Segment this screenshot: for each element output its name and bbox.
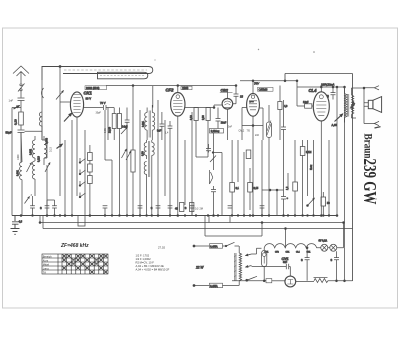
bus wire	[191, 112, 193, 216]
wire	[213, 133, 215, 170]
switch contacts	[80, 159, 86, 198]
svg-text:Bereich: Bereich	[43, 254, 52, 258]
IF T2 coil b	[144, 162, 146, 216]
resistor 1 ohm	[246, 150, 251, 159]
dial cord mark	[57, 144, 63, 149]
IF transformer T1 core	[149, 111, 150, 138]
svg-text:10nF: 10nF	[221, 122, 227, 125]
ground bus	[12, 215, 337, 217]
capacitor 5nF	[211, 186, 216, 216]
wire links	[262, 189, 284, 191]
capacitor C1 1nF	[18, 98, 25, 112]
bus wire	[157, 100, 159, 216]
speck	[258, 49, 259, 50]
svg-text:Braun: Braun	[361, 134, 373, 159]
rectifier CV1	[285, 276, 296, 287]
speaker terminal bottom	[374, 121, 379, 125]
svg-text:0,110: 0,110	[38, 156, 41, 162]
svg-text:2,00: 2,00	[202, 115, 205, 120]
svg-text:ZF=468 kHz: ZF=468 kHz	[60, 243, 89, 249]
svg-text:22 W: 22 W	[195, 266, 204, 270]
wire	[221, 153, 223, 216]
IF T2 coil a	[144, 140, 146, 159]
bus dots	[32, 215, 34, 217]
power transformer winding	[239, 246, 241, 286]
coil L4 0,001	[20, 133, 22, 216]
svg-text:Kurz: Kurz	[43, 258, 49, 262]
trimmer arrow	[25, 197, 30, 204]
wire	[296, 81, 298, 106]
trimmer arrow	[122, 149, 127, 158]
svg-text:4,5: 4,5	[19, 220, 23, 224]
coil arc	[42, 88, 44, 98]
wire	[41, 80, 43, 140]
feedback arrow	[335, 114, 343, 122]
tuning arrow CK1	[64, 113, 72, 122]
fuse F2 0,465A	[210, 283, 223, 288]
svg-text:2M: 2M	[200, 208, 203, 211]
svg-text:Lang: Lang	[43, 266, 49, 270]
output transformer secondary W27	[352, 95, 354, 114]
dial scale box	[42, 67, 153, 81]
wire under tube	[242, 125, 263, 127]
label box C/EM2	[258, 87, 274, 91]
fuse 0,1A	[266, 279, 272, 283]
capacitor 3	[206, 144, 211, 153]
resistor 1,2	[293, 182, 298, 191]
capacitor 3nF	[160, 112, 165, 140]
tap arrow 1	[246, 254, 252, 256]
svg-text:Netz: Netz	[309, 164, 313, 170]
switch mains	[223, 242, 240, 246]
wire sec bottom	[352, 114, 357, 118]
dial lamp 1	[321, 244, 328, 251]
wire	[59, 67, 61, 149]
capacitor 15	[233, 86, 239, 104]
svg-text:12nF: 12nF	[303, 101, 309, 104]
dial pointer marks	[100, 75, 144, 77]
svg-text:0,001: 0,001	[142, 120, 145, 127]
label box 2262 (6D6)	[85, 86, 107, 90]
resistor bank Rc	[88, 176, 93, 184]
resistor R1 0,10	[19, 112, 24, 125]
wire CB2 left	[214, 105, 222, 108]
wire	[184, 140, 186, 205]
sub bus L2	[43, 228, 353, 230]
mains wire top	[194, 245, 210, 247]
bus wire	[328, 140, 330, 216]
resistor heater zigzag	[314, 276, 328, 278]
speck	[313, 51, 315, 53]
bus wire	[64, 140, 66, 216]
trimmer arrow osc	[56, 91, 64, 100]
wire	[294, 140, 296, 182]
wire AVC	[25, 130, 43, 132]
svg-text:A,04 + B4 = M4/10V 2E: A,04 + B4 = M4/10V 2E	[136, 264, 164, 268]
wire	[243, 152, 245, 216]
svg-text:CK1: CK1	[84, 91, 93, 96]
wire CB2 bottom	[226, 109, 228, 140]
IF T2 coil c	[152, 140, 154, 216]
svg-text:Mittel: Mittel	[43, 262, 50, 266]
IF coil Lb	[152, 105, 154, 140]
speaker wire top	[352, 88, 375, 124]
capacitor C2 50pF	[18, 130, 25, 162]
capacitor 3	[331, 87, 336, 100]
switch S1 antenna	[20, 84, 22, 86]
psu ground wire	[296, 281, 314, 283]
frame wire	[344, 87, 346, 248]
svg-text:6V 0,1A: 6V 0,1A	[319, 240, 328, 243]
tube CK1	[70, 92, 83, 117]
cathode wire CF2	[177, 116, 179, 215]
coil L2b 0,110	[32, 158, 35, 196]
trimmer arrow	[126, 151, 131, 160]
switch contact	[308, 198, 315, 206]
cathode CL4	[320, 121, 322, 216]
anode wire CK1	[84, 107, 103, 109]
svg-text:0,465A: 0,465A	[210, 285, 218, 288]
tube CB2	[222, 99, 233, 110]
wire	[46, 165, 48, 216]
svg-text:0,15: 0,15	[254, 187, 259, 190]
loudspeaker LS	[368, 100, 373, 108]
svg-text:CV1: CV1	[282, 257, 289, 261]
capacitor 70V	[104, 105, 115, 110]
svg-text:70 V: 70 V	[100, 101, 106, 105]
svg-text:0,10: 0,10	[190, 115, 193, 120]
corner to IF1	[152, 86, 154, 108]
label box 2263	[181, 86, 192, 90]
resistor 0,15	[248, 183, 253, 193]
svg-text:0,001: 0,001	[17, 169, 20, 176]
link wires	[40, 216, 344, 248]
svg-text:CF2: CF2	[166, 88, 175, 93]
capacitor	[281, 100, 286, 190]
wire	[111, 160, 113, 216]
bus wire	[84, 130, 86, 216]
svg-text:CB2: CB2	[221, 89, 229, 93]
wire	[344, 248, 346, 281]
svg-text:5nF: 5nF	[228, 126, 233, 129]
ballast tube	[262, 250, 267, 266]
resistor bank Rb	[88, 164, 93, 172]
resistor 0,1	[230, 183, 235, 193]
psu bottom wire	[232, 280, 266, 282]
svg-text:220V,12mA: 220V,12mA	[320, 83, 335, 87]
dial lamp 2	[330, 244, 337, 251]
wire	[196, 152, 208, 157]
switch contact	[210, 153, 222, 163]
bus wire	[164, 120, 166, 196]
stem CB2	[226, 92, 228, 98]
grid bus wire	[106, 85, 236, 87]
resistor bank Ra	[88, 153, 93, 161]
capacitor 1,4nF	[168, 121, 173, 145]
capacitor 10nF	[216, 108, 221, 129]
tap switch 3	[246, 279, 248, 281]
line 75V	[240, 80, 297, 82]
speck	[375, 198, 376, 199]
bus wire	[132, 86, 134, 216]
stem CL4	[320, 87, 322, 92]
svg-text:3: 3	[327, 95, 329, 99]
wire	[20, 125, 22, 130]
svg-text:0,10: 0,10	[14, 119, 18, 125]
coil hatched L5	[266, 122, 271, 138]
small boxes 40 / 0,3	[180, 203, 184, 212]
resistor 50	[321, 197, 326, 206]
resistor 2,00	[206, 108, 210, 121]
svg-text:50pF: 50pF	[6, 131, 12, 135]
capacitor 50F	[281, 190, 286, 216]
cathode wire CK1	[76, 117, 78, 196]
svg-text:C/EM2: C/EM2	[259, 88, 268, 92]
notes text block	[136, 254, 170, 272]
svg-text:27,02: 27,02	[158, 246, 165, 250]
svg-text:0,1M: 0,1M	[306, 151, 311, 154]
anode wire CF2	[185, 107, 214, 109]
svg-text:5nF: 5nF	[283, 261, 288, 264]
smoothing cap 2	[334, 251, 339, 281]
bus wire	[169, 145, 171, 216]
svg-text:R2 M=CV, 10 F: R2 M=CV, 10 F	[136, 261, 155, 265]
capacitor row extra	[103, 206, 108, 216]
resistor 0,2Meg	[210, 129, 224, 134]
node M	[14, 106, 20, 110]
bus wire	[307, 140, 309, 196]
wire left bus	[12, 108, 21, 216]
IF coil La	[145, 108, 147, 141]
wire	[277, 173, 288, 216]
svg-text:2nF: 2nF	[255, 134, 260, 137]
sub bus L3	[205, 235, 262, 237]
pin wires	[242, 108, 263, 141]
svg-text:0,10: 0,10	[50, 147, 53, 152]
table row labels	[43, 254, 52, 274]
resistor 0,10	[194, 108, 198, 121]
resistor 0,15M	[300, 147, 305, 156]
capacitor 5nF psu	[285, 264, 290, 276]
svg-text:2263: 2263	[182, 86, 188, 90]
svg-text:A,04 + 4,002 = B4 M8/10 2F: A,04 + 4,002 = B4 M8/10 2F	[136, 268, 170, 272]
trimmer arrow	[27, 163, 32, 173]
speaker terminal top	[364, 86, 379, 90]
tube C/EM2	[247, 93, 260, 116]
frame right wire	[352, 74, 354, 282]
svg-text:1000: 1000	[17, 154, 20, 160]
coil L1	[39, 112, 42, 140]
tube CL4	[313, 92, 329, 121]
resistor R2b	[107, 108, 109, 141]
frame top wire	[285, 74, 353, 81]
coil L3a 0,003	[44, 140, 47, 165]
heater chain	[264, 244, 321, 251]
svg-text:0,465A: 0,465A	[210, 245, 218, 248]
svg-text:6,00: 6,00	[142, 151, 145, 156]
resistor R3	[112, 114, 116, 129]
IF transformer T2 core	[149, 141, 150, 177]
wire	[59, 149, 61, 197]
stub loop	[78, 216, 85, 227]
transformer core	[348, 94, 349, 117]
wire	[237, 140, 239, 182]
pot box	[131, 150, 135, 172]
wire	[261, 140, 263, 216]
potentiometer Lst	[210, 170, 213, 184]
svg-text:30 V: 30 V	[86, 97, 92, 101]
stem	[177, 86, 179, 93]
antenna	[13, 66, 29, 83]
sub bus L1	[40, 222, 344, 224]
grid wire	[60, 101, 70, 103]
stem	[252, 81, 254, 94]
svg-text:1/2 F 1,0002: 1/2 F 1,0002	[136, 257, 152, 261]
svg-text:1/2 F: 1702: 1/2 F: 1702	[136, 254, 150, 258]
svg-text:30pF: 30pF	[96, 112, 102, 115]
bus wire	[139, 110, 141, 216]
mains wire bottom	[194, 285, 210, 287]
pen mark	[375, 127, 381, 128]
bus junction dots	[20, 215, 22, 217]
capacitor 12nF	[305, 104, 312, 108]
svg-text:0,002: 0,002	[30, 148, 33, 155]
svg-text:CL4: CL4	[309, 88, 318, 93]
trimmer arrow	[45, 163, 50, 173]
capacitors on bus row	[45, 202, 50, 216]
svg-text:2262 (6D6): 2262 (6D6)	[86, 86, 100, 90]
resistor R4	[117, 114, 121, 129]
output transformer primary	[345, 87, 347, 123]
svg-text:TA: TA	[43, 270, 46, 274]
capacitor 14nF	[125, 108, 130, 216]
frame wire	[336, 87, 338, 216]
valve table	[42, 254, 108, 274]
bus wire	[313, 140, 315, 216]
HT wire 220V	[297, 86, 345, 88]
tap arrow 2	[246, 266, 252, 268]
dial scale marks	[64, 69, 147, 71]
svg-text:1nF: 1nF	[9, 99, 14, 103]
cathode C/EM2	[252, 116, 254, 215]
bus wire	[71, 120, 73, 216]
fuse F1 0,465A	[210, 244, 223, 249]
power transformer core	[235, 253, 236, 281]
svg-text:15: 15	[240, 95, 243, 99]
resistor 4,0	[278, 102, 282, 110]
svg-text:0,2Meg: 0,2Meg	[211, 129, 220, 133]
svg-text:CM,2: CM,2	[239, 130, 245, 133]
svg-text:A,05: A,05	[332, 123, 338, 127]
capacitor	[30, 196, 35, 216]
dial pointer box	[98, 72, 148, 79]
wire	[35, 136, 47, 158]
speck	[154, 59, 155, 60]
trimmer arrow	[121, 127, 128, 134]
node	[59, 66, 61, 68]
svg-text:10,00: 10,00	[109, 126, 112, 133]
coil L2a 0,002	[32, 140, 35, 158]
ground symbol	[11, 216, 20, 235]
wire	[105, 110, 112, 160]
svg-text:239 GW: 239 GW	[360, 159, 379, 205]
smoothing cap 1	[305, 248, 310, 281]
tube CF2	[171, 93, 185, 117]
